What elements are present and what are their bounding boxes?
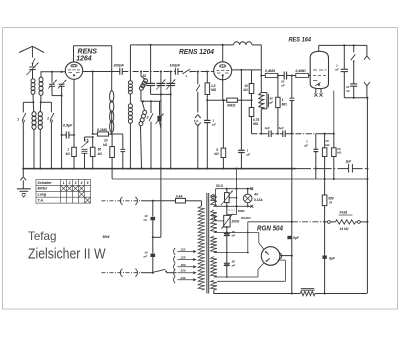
wire rail bbox=[52, 95, 62, 97]
svg-text:Lang: Lang bbox=[38, 193, 47, 197]
chassis bus bbox=[23, 168, 296, 170]
svg-text:150: 150 bbox=[181, 263, 186, 267]
speaker jack bottom bbox=[364, 82, 370, 86]
capacitor bbox=[291, 76, 293, 98]
trim cap bbox=[170, 72, 172, 84]
capacitor 6uF bbox=[322, 256, 326, 259]
wire V2 top bbox=[222, 45, 224, 62]
junction bbox=[73, 168, 75, 170]
ground lead bbox=[22, 169, 24, 177]
antenna coil L1 bbox=[31, 79, 35, 95]
AVC line bbox=[252, 133, 269, 135]
coil bbox=[129, 45, 131, 81]
wiper arrow bbox=[211, 214, 217, 221]
junction bbox=[50, 168, 52, 170]
transformer core bbox=[206, 193, 208, 294]
antenna trimmer C1 bbox=[29, 66, 35, 68]
wire V3 pins bbox=[315, 89, 317, 94]
wire bbox=[366, 98, 368, 294]
coil bbox=[139, 110, 147, 125]
svg-text:nF: nF bbox=[346, 89, 350, 93]
transformer secondary S4 bbox=[211, 257, 217, 278]
svg-text:nF: nF bbox=[144, 254, 148, 258]
barretter 100 bbox=[226, 206, 228, 215]
switch S3 bbox=[150, 101, 152, 113]
tube V2 RENS 1204 bbox=[214, 62, 232, 80]
wire bbox=[240, 70, 242, 150]
junction bbox=[39, 168, 41, 170]
Feld connector bbox=[328, 221, 331, 224]
svg-text:MΩ: MΩ bbox=[282, 102, 288, 106]
resistor 1k bbox=[73, 135, 75, 147]
svg-text:T.A.: T.A. bbox=[194, 119, 199, 123]
junction bbox=[61, 168, 63, 170]
svg-text:RES 164: RES 164 bbox=[289, 37, 312, 44]
wire V2 cathode bbox=[222, 75, 224, 100]
coil L4 bbox=[38, 112, 42, 130]
svg-text:5: 5 bbox=[87, 181, 89, 185]
wire V3 top bbox=[318, 45, 320, 51]
svg-text:2μF: 2μF bbox=[345, 160, 353, 164]
junction bbox=[170, 168, 172, 170]
svg-text:Mittel: Mittel bbox=[38, 187, 48, 191]
wire bbox=[344, 97, 367, 99]
B+ rail bbox=[291, 101, 293, 294]
coil L3 bbox=[32, 112, 36, 130]
svg-text:0,4MΩ: 0,4MΩ bbox=[265, 69, 276, 73]
wire V2 plate bbox=[232, 69, 262, 71]
wire filament bbox=[215, 232, 259, 234]
capacitor 8uF bbox=[287, 236, 291, 239]
svg-text:kΩ: kΩ bbox=[98, 152, 103, 156]
svg-text:1μF: 1μF bbox=[265, 126, 270, 130]
transformer secondary S1 bbox=[211, 194, 217, 206]
transformer secondary S2 bbox=[211, 210, 217, 233]
junction bbox=[141, 168, 143, 170]
mains switch bbox=[154, 269, 166, 272]
wire V3 grid bias bbox=[333, 91, 335, 134]
svg-text:50 Ω: 50 Ω bbox=[216, 184, 223, 188]
svg-text:0,1MΩ: 0,1MΩ bbox=[97, 128, 108, 132]
svg-text:MΩ: MΩ bbox=[211, 88, 217, 92]
speaker jack top bbox=[366, 45, 368, 56]
svg-text:kΩ: kΩ bbox=[337, 151, 342, 155]
switch S4 bbox=[181, 71, 183, 73]
padder cap bbox=[150, 45, 152, 83]
svg-text:nF: nF bbox=[281, 84, 285, 88]
resistor 50k bbox=[92, 137, 94, 147]
wire anode rail bbox=[248, 221, 292, 223]
svg-text:MΩ: MΩ bbox=[253, 122, 259, 126]
transformer secondary S3 bbox=[211, 236, 217, 253]
svg-text:RENS 1204: RENS 1204 bbox=[179, 47, 214, 56]
svg-text:14 kΩ: 14 kΩ bbox=[340, 227, 349, 231]
svg-text:μF: μF bbox=[304, 144, 309, 148]
svg-text:0,13A: 0,13A bbox=[254, 198, 263, 202]
svg-text:kΩ: kΩ bbox=[243, 88, 248, 92]
svg-text:1264: 1264 bbox=[76, 53, 91, 62]
svg-text:nF: nF bbox=[144, 218, 148, 222]
wire bbox=[61, 86, 63, 168]
svg-text:3: 3 bbox=[75, 181, 77, 185]
svg-text:μF: μF bbox=[246, 152, 251, 156]
svg-text:Zielsicher II W: Zielsicher II W bbox=[28, 247, 106, 263]
resistor 0,75M bbox=[251, 100, 253, 107]
svg-text:4: 4 bbox=[80, 181, 83, 185]
osc det coil bbox=[260, 93, 262, 109]
svg-text:2: 2 bbox=[68, 181, 71, 185]
switch table bbox=[36, 180, 91, 204]
wire V1 cathode bbox=[73, 79, 75, 168]
junction bbox=[92, 168, 94, 170]
svg-text:100pF: 100pF bbox=[170, 63, 181, 67]
junction bbox=[160, 168, 162, 170]
transformer primary bbox=[198, 206, 205, 290]
wire grid lead bbox=[41, 72, 65, 78]
svg-text:nF: nF bbox=[335, 68, 339, 72]
trim cap bbox=[160, 72, 162, 84]
tube V4 RGN 504 bbox=[261, 247, 280, 266]
heater line bbox=[112, 178, 367, 180]
junction bbox=[324, 178, 326, 180]
primary taps bbox=[174, 248, 176, 255]
switch S5 bbox=[197, 72, 199, 85]
svg-text:50W: 50W bbox=[103, 235, 111, 239]
wire filament 2 bbox=[258, 263, 264, 270]
wire screen drop bbox=[92, 72, 94, 135]
capacitor bbox=[122, 134, 124, 149]
wire V1 top bbox=[73, 46, 75, 62]
svg-text:kΩ: kΩ bbox=[103, 143, 108, 147]
svg-text:μF: μF bbox=[211, 122, 216, 126]
svg-text:Ω: Ω bbox=[328, 200, 332, 204]
resistor 30k bbox=[207, 99, 227, 101]
pot wiper wire bbox=[229, 197, 236, 199]
wire heater bottom bbox=[213, 205, 251, 207]
svg-text:T.A.: T.A. bbox=[38, 199, 45, 203]
svg-text:220: 220 bbox=[180, 269, 186, 273]
svg-text:nF: nF bbox=[232, 234, 236, 238]
svg-text:1: 1 bbox=[17, 118, 19, 122]
trimmer bbox=[159, 101, 161, 115]
switch S2 bbox=[50, 102, 52, 112]
svg-text:1,5: 1,5 bbox=[211, 84, 216, 88]
wire bbox=[33, 129, 35, 169]
svg-text:2: 2 bbox=[46, 117, 49, 121]
svg-text:240: 240 bbox=[180, 276, 186, 280]
junction bbox=[206, 168, 208, 170]
mains line bottom bbox=[102, 272, 142, 274]
capacitor 20nF a bbox=[226, 232, 228, 235]
svg-text:0,4MΩ: 0,4MΩ bbox=[296, 69, 307, 73]
junction bbox=[291, 168, 293, 170]
antenna bbox=[19, 46, 44, 52]
capacitor 20nF b bbox=[226, 253, 228, 264]
wire bbox=[111, 46, 113, 72]
svg-text:4V: 4V bbox=[253, 192, 259, 196]
wire bbox=[324, 222, 326, 256]
choke bbox=[234, 42, 253, 45]
wire rail bbox=[151, 93, 171, 95]
wire bbox=[32, 94, 35, 112]
mains line top bbox=[102, 200, 142, 202]
svg-text:Feld: Feld bbox=[340, 211, 348, 215]
junction bbox=[33, 168, 35, 170]
svg-text:kΩ: kΩ bbox=[214, 152, 219, 156]
tube V1 RENS 1264 bbox=[65, 62, 82, 79]
wire anode out bbox=[280, 255, 292, 257]
tuning cap C3 bbox=[59, 83, 65, 85]
resistor 5k bbox=[221, 148, 226, 157]
junction bbox=[22, 168, 24, 170]
svg-text:0,4A: 0,4A bbox=[176, 195, 183, 199]
wire rail right bbox=[41, 101, 52, 103]
junction bbox=[129, 168, 131, 170]
ground bbox=[17, 188, 31, 190]
svg-text:100Ω: 100Ω bbox=[231, 220, 239, 224]
svg-text:μF: μF bbox=[269, 101, 274, 105]
svg-text:kΩ: kΩ bbox=[66, 152, 71, 156]
wire bbox=[112, 133, 123, 135]
wire rail left bbox=[23, 101, 33, 103]
svg-text:30kΩ: 30kΩ bbox=[227, 104, 236, 108]
wire top line bbox=[130, 44, 233, 46]
junction bbox=[150, 168, 152, 170]
wire V1 plate bbox=[83, 71, 120, 73]
svg-text:nF: nF bbox=[232, 264, 236, 268]
svg-text:5WΩ: 5WΩ bbox=[238, 209, 246, 213]
wire bbox=[215, 189, 217, 207]
resistor 1,5M bbox=[206, 72, 208, 83]
switch S6 bbox=[353, 45, 355, 52]
svg-text:200pF: 200pF bbox=[113, 63, 125, 67]
junction bbox=[122, 168, 124, 170]
junction bbox=[240, 168, 242, 170]
junction bbox=[222, 168, 224, 170]
capacitor 1uF bbox=[204, 119, 211, 121]
svg-text:3: 3 bbox=[147, 115, 149, 119]
svg-text:RGN 504: RGN 504 bbox=[257, 225, 283, 232]
wire bbox=[236, 169, 238, 215]
svg-text:0,5μF: 0,5μF bbox=[63, 124, 73, 128]
resistor 10k bbox=[251, 70, 253, 84]
svg-text:1: 1 bbox=[63, 181, 65, 185]
tuning cap C2 bbox=[51, 72, 53, 83]
svg-text:110: 110 bbox=[181, 248, 186, 252]
capacitor 20nF bbox=[283, 72, 285, 80]
wire bbox=[153, 236, 161, 238]
bottom line bbox=[213, 293, 300, 295]
junction bbox=[197, 168, 199, 170]
svg-text:kΩ: kΩ bbox=[325, 143, 330, 147]
switch S1 bbox=[22, 102, 24, 112]
TA jacks bbox=[195, 115, 201, 118]
speaker choke bbox=[301, 288, 315, 290]
resistor 1M bbox=[277, 76, 279, 98]
capacitor 1uF bbox=[238, 149, 245, 151]
wire rail bbox=[141, 100, 161, 102]
svg-text:Schalter: Schalter bbox=[38, 181, 53, 185]
resistor 650 bbox=[324, 179, 326, 195]
lamp bbox=[247, 189, 249, 195]
svg-text:125: 125 bbox=[181, 256, 186, 260]
tube V3 RES 164 bbox=[310, 51, 328, 88]
wire heater top bbox=[216, 188, 252, 190]
transformer secondary S5 bbox=[211, 280, 217, 290]
svg-text:W1264: W1264 bbox=[241, 216, 251, 220]
antenna coil L2 bbox=[39, 77, 43, 95]
junction bbox=[366, 168, 368, 170]
svg-text:1μF: 1μF bbox=[279, 126, 284, 130]
wire bbox=[160, 94, 162, 237]
wire bbox=[278, 259, 286, 261]
osc coil bbox=[110, 91, 114, 133]
svg-text:Tefag: Tefag bbox=[28, 229, 57, 243]
